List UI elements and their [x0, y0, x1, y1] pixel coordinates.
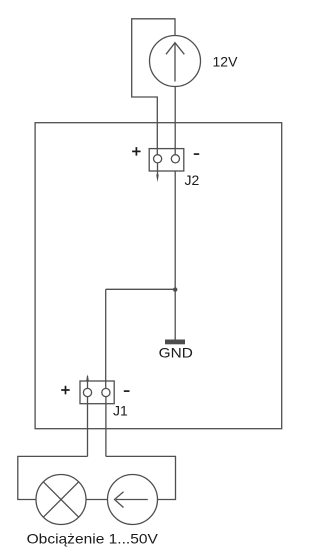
ground GND bar	[165, 340, 185, 345]
terminal circles J2	[154, 155, 162, 163]
wire between lamp and source circle	[86, 499, 108, 501]
wire junction left	[106, 288, 176, 290]
wire source bottom to J2 pin2	[174, 87, 176, 157]
lamp circle	[36, 475, 86, 525]
arrow inside source	[174, 43, 176, 82]
label + of J1	[61, 386, 69, 395]
svg-text:J1: J1	[113, 403, 128, 419]
current source circle (arrow)	[108, 475, 158, 525]
label + of J2	[132, 147, 141, 156]
label - of J2	[194, 153, 199, 155]
svg-text:12V: 12V	[213, 54, 239, 70]
svg-text:GND: GND	[159, 345, 193, 361]
lamp X	[43, 482, 78, 517]
wire down to J1 pin2	[105, 289, 107, 392]
wire J2 pin2 down to junction	[174, 171, 176, 289]
wire J1 pin2 down	[105, 397, 107, 457]
connector J2 body	[149, 149, 184, 171]
terminal circles J1	[83, 388, 91, 396]
pin stub J2 pin1	[157, 163, 159, 177]
svg-text:Obciążenie 1...50V: Obciążenie 1...50V	[27, 531, 159, 547]
connector J1 body	[80, 381, 114, 404]
voltage source 12V	[150, 36, 201, 87]
wire source top loop to J2 pin1	[132, 19, 175, 156]
label - of J1	[124, 390, 130, 392]
wire load left rail	[18, 456, 88, 499]
junction node	[173, 287, 177, 291]
wire junction to GND	[174, 289, 176, 339]
enclosure box	[35, 123, 282, 429]
wire J1 pin1 down	[87, 397, 89, 457]
wire load right rail	[106, 456, 176, 499]
svg-text:J2: J2	[185, 172, 200, 188]
pin stub J1 pin1	[87, 376, 89, 392]
arrow inside pointing left	[116, 499, 148, 501]
